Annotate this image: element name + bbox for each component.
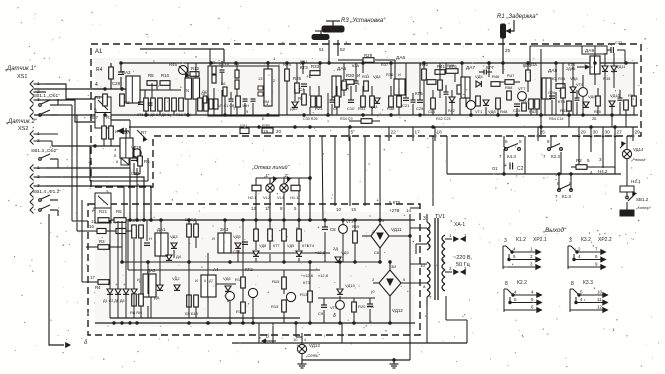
label b bottom [333, 313, 336, 319]
svg-text:30: 30 [605, 130, 611, 136]
diode VD5b [154, 285, 163, 300]
svg-text:DА: DА [124, 130, 130, 135]
resistor R5 lower [138, 156, 150, 166]
svg-text:3: 3 [569, 238, 572, 244]
label KT8b [568, 62, 589, 69]
resistor R48 [496, 98, 508, 114]
wire bridge1 [362, 220, 411, 262]
capacitor filler f9 [444, 85, 449, 115]
svg-text:27: 27 [617, 130, 623, 136]
svg-text:ЅВ1.4 „Ф1.2“: ЅВ1.4 „Ф1.2“ [33, 189, 61, 195]
network enclosure [208, 66, 279, 116]
IC DA3 a2 [212, 227, 231, 253]
svg-text:„Сеть“: „Сеть“ [305, 353, 320, 358]
svg-text:Ю: Ю [552, 76, 556, 81]
resistor R25b [293, 76, 302, 93]
switch SB1.3 label [31, 148, 58, 154]
module label A1 [95, 49, 103, 55]
svg-text:С26: С26 [548, 90, 556, 95]
trimmer R7 arrow [137, 130, 147, 141]
relay contact K4.3 [499, 139, 525, 174]
resistor R41 [435, 64, 457, 74]
svg-text:DА2: DА2 [122, 70, 131, 75]
svg-text:19: 19 [263, 129, 268, 134]
lamp VL1 [280, 184, 288, 192]
svg-text:R10: R10 [161, 73, 170, 78]
resistor R58 [505, 85, 513, 100]
diode VD9 psu [330, 240, 341, 262]
svg-text:VД13: VД13 [309, 343, 320, 348]
svg-text:N: N [186, 88, 189, 93]
mid vertical wires2 [365, 136, 447, 220]
svg-text:ХЅ1: ХЅ1 [17, 74, 27, 80]
A1 pin 27 [614, 127, 622, 141]
resistor R25 [298, 89, 307, 105]
label VD9 psu [333, 246, 349, 255]
wire input line xs2 tap [52, 145, 120, 147]
label row under band [246, 109, 265, 121]
labels KT5 27V [389, 200, 420, 213]
resistor filler f21 [311, 96, 316, 107]
wire XS2 row2 right [46, 177, 144, 220]
svg-text:2Б: 2Б [592, 117, 597, 121]
svg-text:3: 3 [423, 216, 426, 222]
switch SB1.4 contact b [39, 205, 58, 216]
svg-text:51: 51 [319, 47, 325, 52]
svg-text:29: 29 [635, 130, 641, 136]
resistors R6 R7 [130, 218, 143, 238]
diode VD3 a2 [170, 234, 178, 248]
relay output block K1.2 XP2.1 [503, 237, 547, 269]
connector XS2 pin 3 [30, 183, 46, 190]
label 220V [453, 255, 473, 268]
svg-text:ДА6: ДА6 [396, 55, 405, 61]
svg-text:~220 В,: ~220 В, [453, 255, 473, 261]
resistor filler f8 [438, 63, 443, 98]
wire input line 4 [34, 88, 126, 90]
svg-text:НМ: НМ [263, 99, 269, 104]
label OP [201, 91, 207, 96]
svg-text:К4.3: К4.3 [507, 154, 516, 159]
svg-text:R36: R36 [386, 72, 394, 77]
capacitor filler f13 [575, 90, 580, 115]
svg-text:„Контр“: „Контр“ [635, 205, 652, 210]
svg-text:К2.2: К2.2 [517, 280, 527, 286]
svg-text:17: 17 [90, 275, 95, 280]
diode VD5r [475, 74, 483, 87]
resistor R33b [362, 74, 381, 91]
svg-text:КТ7: КТ7 [486, 65, 494, 70]
svg-text:R43: R43 [447, 64, 454, 68]
svg-text:VД12: VД12 [392, 308, 403, 313]
svg-text:VL1: VL1 [277, 195, 285, 200]
resistor filler f28 [457, 85, 461, 94]
switch SB1.1 contact b [39, 110, 58, 116]
diode VD6 a2 [223, 276, 231, 291]
resistor R28 [88, 229, 133, 234]
wire A2 top bus [95, 219, 415, 221]
labels net bottom [217, 104, 249, 108]
wire psu right vertical [409, 214, 411, 343]
label R36 [386, 72, 401, 77]
svg-text:R54 С14: R54 С14 [549, 117, 564, 121]
resistor R23m [315, 96, 323, 111]
label H4.2 [596, 157, 615, 174]
svg-text:VТ1: VТ1 [475, 109, 483, 114]
resistor R35 bottom [349, 119, 380, 125]
resistor R40 [420, 62, 429, 80]
svg-text:К1.3: К1.3 [562, 194, 571, 199]
potentiometer R3 body [322, 21, 344, 32]
svg-text:R52: R52 [529, 109, 537, 114]
label O1 [492, 166, 498, 171]
svg-text:И: И [398, 72, 401, 77]
svg-text:VД14: VД14 [633, 147, 644, 152]
resistor R12 a2 [235, 277, 245, 288]
wire filler f17 [545, 92, 556, 115]
IC DA1 a2 [149, 227, 168, 256]
resistor R15 [272, 270, 286, 289]
resistors R51 R52 [529, 99, 540, 114]
svg-text:„Датчик 1“: „Датчик 1“ [4, 66, 37, 72]
resistor R10 [160, 73, 170, 85]
resistor R53 [560, 101, 571, 113]
pins 19 20 [263, 129, 281, 134]
svg-text:ДА7: ДА7 [466, 65, 475, 71]
svg-text:ДА9: ДА9 [585, 48, 594, 54]
A2 wires verticals [110, 220, 243, 323]
connector label Датчик 1 XS1 [4, 66, 37, 80]
svg-text:8: 8 [571, 281, 574, 287]
lamp pin numbers [251, 206, 297, 211]
svg-text:К3А: К3А [530, 63, 537, 67]
plus marks [107, 282, 126, 287]
svg-text:ОС: ОС [202, 90, 208, 94]
svg-text:С2: С2 [517, 166, 524, 172]
capacitor C21 [402, 98, 410, 108]
wire vertical riser d [116, 187, 118, 220]
transformer TV1 primary top [427, 214, 430, 250]
svg-text:3: 3 [504, 238, 507, 244]
svg-text:R30: R30 [346, 73, 355, 78]
lamp leads down [256, 191, 299, 229]
capacitor C29 [131, 158, 140, 176]
wire left return with arrow delta [49, 214, 88, 347]
svg-text:R4: R4 [95, 285, 101, 290]
lamp dropper labels [259, 244, 309, 248]
A1 pin 30 [590, 127, 598, 141]
A1 pin 17 [412, 127, 420, 141]
label pin5 [94, 108, 106, 116]
resistor R13 [300, 262, 312, 323]
svg-text:R42: R42 [448, 109, 455, 113]
labels 12.8 KT3 [303, 273, 314, 285]
resistor R50 [523, 63, 532, 81]
transformer TV1 secondary [442, 235, 445, 291]
bridge rectifier VD12 psu [371, 264, 406, 313]
svg-text:С1Б: С1Б [428, 110, 436, 114]
diode row bottom [103, 289, 137, 303]
svg-text:R12: R12 [191, 66, 200, 71]
svg-text:VД9: VД9 [588, 94, 596, 99]
resistor net r4 [235, 80, 239, 89]
svg-text:R58: R58 [505, 85, 513, 90]
potentiometer R1 body [501, 20, 515, 38]
node pin4 [91, 82, 123, 90]
svg-text:R49: R49 [519, 98, 527, 103]
wire R57 legs [104, 115, 111, 146]
svg-text:VL2: VL2 [263, 195, 271, 200]
capacitor C08 [242, 242, 248, 244]
wire rail drop [209, 49, 211, 66]
transistor VT mid a2 [284, 289, 296, 302]
resistor R2 right [571, 158, 596, 175]
transistor KT2 a2 [226, 292, 235, 323]
switch SB1.2 [626, 192, 652, 210]
svg-text:12: 12 [251, 206, 256, 211]
A1 pin 29 [578, 127, 586, 141]
switch block U2 box [95, 193, 111, 223]
svg-text:VД5: VД5 [233, 234, 241, 239]
svg-text:ЗА3: ЗА3 [220, 227, 229, 232]
svg-text:R8: R8 [148, 73, 154, 78]
svg-text:С8: С8 [330, 227, 336, 232]
op-amp DA5 [332, 66, 349, 97]
svg-text:4: 4 [95, 82, 98, 88]
resistor net r6 [203, 96, 207, 103]
svg-text:R3 „Установка“: R3 „Установка“ [341, 18, 386, 24]
svg-text:≈12,8: ≈12,8 [303, 273, 314, 278]
svg-text:„Отказ линий“: „Отказ линий“ [251, 164, 291, 171]
resistor filler f7 [424, 63, 436, 84]
dense row resistors [144, 98, 184, 111]
label VD11r [616, 64, 626, 69]
junction dots batch [104, 62, 628, 325]
svg-text:ХР2.2: ХР2.2 [598, 237, 612, 243]
svg-text:VТ4: VТ4 [330, 305, 338, 310]
label 3 TV1 [423, 214, 445, 222]
switch SB1.4 contact a [39, 195, 58, 201]
svg-text:VД5: VД5 [475, 74, 483, 79]
svg-text:ЅВ1.3 „Об2“: ЅВ1.3 „Об2“ [31, 148, 58, 154]
resistor filler f1 [233, 96, 240, 111]
svg-text:VД11: VД11 [391, 227, 402, 232]
potentiometer R3 Установка label [341, 18, 386, 24]
label И lower [115, 129, 118, 134]
diode VD4 [370, 98, 380, 109]
capacitor filler f22 [330, 93, 335, 115]
svg-text:„Датчик 2“: „Датчик 2“ [5, 119, 38, 125]
resistors R5 R15 pair [185, 248, 199, 318]
label KT8 [558, 99, 566, 104]
wire XS2 row1 right [46, 168, 130, 220]
capacitor C9 [318, 298, 327, 323]
svg-text:И: И [357, 73, 360, 78]
wires cluster2 [146, 63, 196, 115]
svg-text:VД9: VД9 [287, 244, 294, 248]
svg-text:ХЅ2: ХЅ2 [18, 126, 28, 132]
transistor VT3 [339, 219, 355, 262]
resistor R4 [96, 67, 113, 79]
potentiometer R3 lower [312, 31, 329, 40]
diodes pair [602, 66, 617, 81]
resistor net r5 [223, 87, 227, 96]
svg-text:VД3: VД3 [170, 234, 178, 239]
transistor VT1r [467, 101, 484, 114]
svg-text:R34 С9: R34 С9 [340, 117, 353, 121]
svg-text:VД4: VД4 [373, 74, 381, 79]
svg-text:Б5 Б15: Б5 Б15 [185, 311, 199, 316]
resistors R9 R10 a2 [185, 217, 198, 237]
trimmer R45a [169, 62, 189, 77]
wire R3 to box pin 52 [338, 40, 346, 56]
label 6 bottom [262, 334, 276, 343]
connector XS1 extra pins [30, 105, 34, 120]
wire arrow left mid [118, 128, 129, 133]
A2 pin 17 [86, 275, 98, 282]
resistor R5 [114, 209, 126, 222]
capacitor C27 [611, 40, 623, 53]
diode VD8r [570, 87, 576, 92]
capacitor C28 [112, 72, 124, 86]
wire lower rail A1 [129, 126, 638, 128]
resistor filler f10 [428, 90, 436, 115]
wire XS1 row3 down [46, 100, 95, 122]
switch block U1 box [95, 97, 111, 128]
wire bottom runs [259, 323, 410, 360]
svg-text:13: 13 [258, 76, 263, 81]
svg-text:R1 „Задержка“: R1 „Задержка“ [497, 14, 539, 20]
label Выход [542, 226, 567, 234]
IC DA4 side pins [258, 86, 263, 96]
relay contact K2.3 [543, 139, 562, 174]
IC DA9 body [590, 56, 600, 74]
wire DA4 top [224, 49, 269, 69]
module label A2 [92, 208, 100, 214]
svg-text:10Н: 10Н [242, 104, 249, 108]
labels 12.8 KT [307, 243, 326, 255]
svg-text:С25: С25 [416, 106, 424, 111]
resistor H4.1 [620, 179, 641, 192]
relay output block K3.2 XP2.2 [568, 237, 612, 269]
svg-text:18: 18 [437, 130, 443, 136]
svg-text:К3.3: К3.3 [583, 280, 593, 286]
wire U1 to риser [111, 120, 130, 168]
wire bridge2 [373, 261, 427, 323]
resistor filler f23 [370, 86, 375, 115]
svg-text:Н: Н [149, 236, 152, 241]
diode VD10 psu [337, 262, 356, 300]
svg-text:≈12,8: ≈12,8 [315, 250, 326, 255]
resistor filler f12 [561, 63, 566, 115]
svg-text:КТ1 С5 Д0 С4 Д5 Щ: КТ1 С5 Д0 С4 Д5 Щ [137, 113, 171, 117]
comparator DA3 body [185, 78, 192, 99]
wire bottom-left section rail [118, 130, 155, 132]
connector XS2 pin 2 [30, 174, 46, 181]
wire pin7 to bus [427, 296, 467, 343]
svg-text:„1“: „1“ [264, 173, 270, 178]
diode filler f11 [448, 90, 455, 115]
labels under dense row [137, 113, 171, 117]
diode VD10r [609, 93, 621, 106]
resistor R38 [387, 96, 395, 111]
A1 pin 25 [537, 127, 545, 141]
wire XS2 row3 right [46, 186, 151, 220]
resistor filler f24 [397, 88, 402, 115]
capacitor filler f15 [618, 90, 623, 115]
svg-text:К2.3: К2.3 [551, 154, 560, 159]
wire bus below A1 right [447, 173, 621, 175]
wires mid cluster [287, 63, 420, 115]
resistor lamp dropper 4 [297, 229, 302, 241]
svg-text:VД9: VД9 [341, 250, 349, 255]
capacitor filler f25 [411, 93, 416, 115]
svg-text:R55: R55 [594, 110, 601, 114]
potentiometer R1 Задержка label [497, 14, 539, 20]
transformer TV1 primary bottom [427, 262, 430, 297]
connector XA-1 [454, 222, 465, 228]
IC A4 [195, 267, 219, 297]
svg-text:КЗЧ: КЗЧ [300, 60, 307, 64]
labels 1 2 [264, 173, 289, 178]
lamp tie wire [256, 177, 311, 185]
svg-text:29: 29 [581, 130, 587, 136]
svg-text:ДВ2: ДВ2 [290, 106, 298, 111]
svg-text:ДА5: ДА5 [337, 66, 346, 72]
label +E [306, 74, 312, 79]
resistor filler f4 [333, 86, 339, 115]
bridge rectifier VD11 psu [371, 218, 402, 255]
IC DA10 [120, 130, 133, 158]
svg-text:Н4.2: Н4.2 [598, 169, 608, 174]
resistor net r1 [210, 61, 216, 74]
block H black [620, 210, 634, 216]
wires net verticals [214, 61, 253, 116]
resistor R8 [147, 73, 157, 85]
svg-text:КТ5: КТ5 [415, 91, 423, 96]
svg-text:R19: R19 [352, 224, 360, 229]
capacitor filler f6 [354, 63, 359, 92]
lamp VL2 [266, 184, 274, 192]
capacitor C2 [503, 149, 524, 175]
block NO [121, 158, 129, 165]
label 2RH [476, 100, 481, 104]
svg-text:ЅВ1.1 „Об1“: ЅВ1.1 „Об1“ [33, 93, 60, 99]
svg-text:R21: R21 [99, 209, 108, 214]
op-amp DA2 input [122, 70, 140, 103]
resistor R34 [556, 84, 565, 89]
resistor R2 [120, 94, 130, 106]
wire bottom external bus [232, 342, 467, 344]
label filler f18 [446, 63, 575, 73]
svg-text:15: 15 [351, 207, 356, 212]
transformer TV1 core [435, 218, 438, 300]
resistor net r2 [212, 75, 216, 83]
svg-text:Н2.1: Н2.1 [248, 195, 257, 200]
svg-text:5: 5 [94, 108, 97, 114]
svg-text:R13: R13 [300, 292, 308, 297]
svg-text:10: 10 [293, 337, 298, 342]
label Отказ линий [251, 164, 291, 171]
svg-text:Д7: Д7 [209, 279, 214, 283]
lamp VD13 Сеть [293, 337, 320, 358]
svg-text:10: 10 [597, 290, 603, 295]
transistor VT2 [131, 145, 141, 157]
wire A2 inner bottom bus [110, 317, 300, 319]
transformer wires left [410, 228, 467, 305]
ground under lamp [298, 358, 307, 368]
capacitor net c2 [243, 99, 248, 101]
